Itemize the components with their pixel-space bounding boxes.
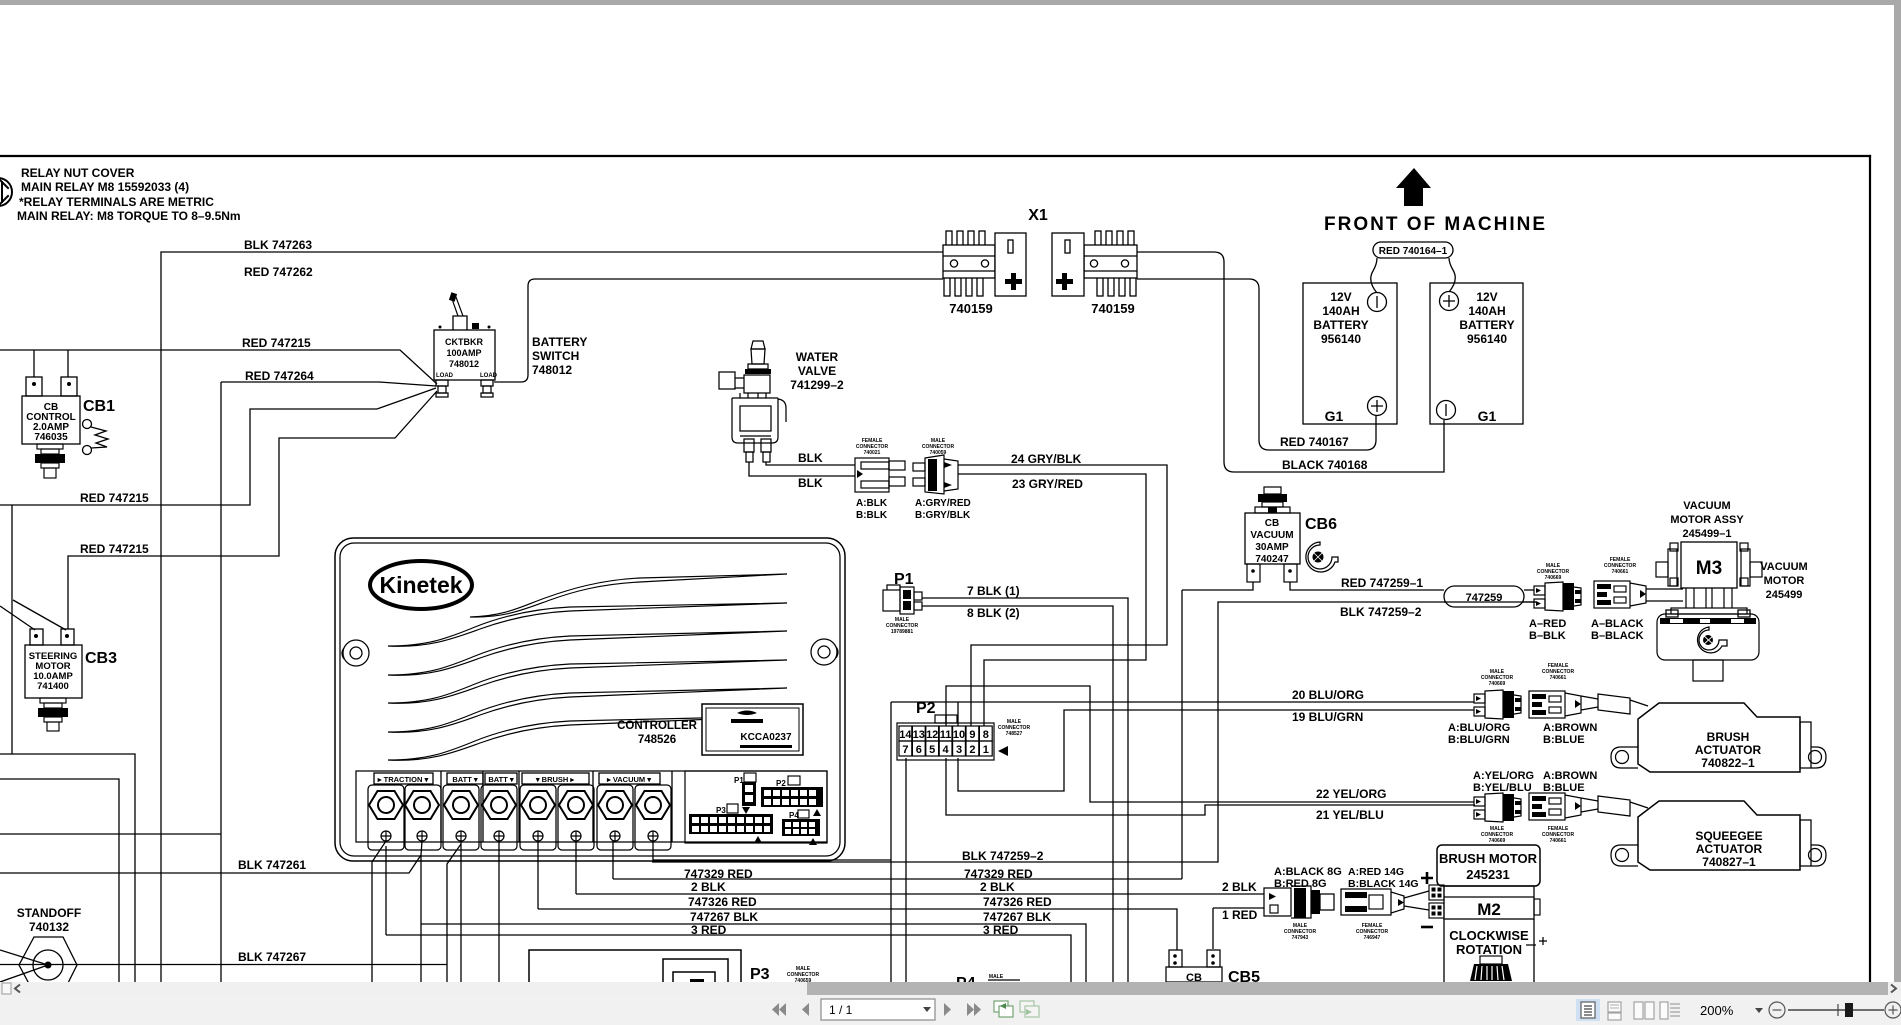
svg-text:CB1: CB1 — [83, 398, 115, 415]
svg-text:748012: 748012 — [449, 359, 479, 369]
svg-text:A–RED: A–RED — [1529, 618, 1566, 630]
svg-text:1: 1 — [983, 744, 989, 756]
page box — [821, 999, 935, 1020]
rib wave 6 — [388, 716, 787, 760]
svg-text:BLK 747259–2: BLK 747259–2 — [962, 849, 1044, 863]
svg-text:1 / 1: 1 / 1 — [829, 1003, 853, 1017]
terminal strip — [356, 771, 827, 842]
wire RED 747259-1 — [1182, 582, 1534, 879]
svg-text:140AH: 140AH — [1468, 304, 1505, 318]
wire 20 BLU/ORG — [891, 701, 1474, 703]
svg-text:22 YEL/ORG: 22 YEL/ORG — [1316, 787, 1386, 801]
wires P2 region — [891, 686, 1475, 937]
rib wave 5 — [388, 688, 787, 732]
svg-text:747943: 747943 — [1292, 935, 1309, 941]
svg-text:7 BLK (1): 7 BLK (1) — [967, 584, 1020, 598]
svg-text:A:BLU/ORG: A:BLU/ORG — [1448, 722, 1510, 734]
svg-text:12: 12 — [926, 729, 938, 741]
svg-text:MOTOR ASSY: MOTOR ASSY — [1670, 514, 1744, 526]
svg-text:RED 747215: RED 747215 — [242, 336, 311, 350]
svg-text:740021: 740021 — [864, 450, 881, 456]
svg-text:M2: M2 — [1477, 900, 1501, 919]
svg-text:CKTBKR: CKTBKR — [445, 337, 483, 347]
svg-text:ACTUATOR: ACTUATOR — [1695, 743, 1762, 757]
battery G1 number 1 — [1303, 283, 1397, 424]
svg-text:B:BLU/GRN: B:BLU/GRN — [1448, 734, 1510, 746]
standoff 740132 — [17, 906, 81, 993]
terminal studs — [368, 785, 671, 850]
svg-text:VALVE: VALVE — [798, 364, 836, 378]
circuit breaker CB1 — [22, 377, 115, 478]
rib wave 2 — [388, 603, 787, 646]
wire BLK 747263 — [161, 252, 943, 982]
svg-text:▸ VACUUM ▾: ▸ VACUUM ▾ — [606, 775, 652, 784]
svg-text:P3: P3 — [750, 966, 770, 983]
CB6 terminals — [1247, 564, 1297, 582]
svg-text:Kinetek: Kinetek — [379, 572, 462, 598]
svg-text:741299–2: 741299–2 — [790, 378, 844, 392]
male connector 740059 — [913, 438, 971, 521]
svg-text:VACUUM: VACUUM — [1760, 561, 1807, 573]
svg-text:740661: 740661 — [1550, 675, 1567, 681]
svg-text:B:YEL/BLU: B:YEL/BLU — [1473, 782, 1532, 794]
svg-text:P2: P2 — [776, 779, 786, 788]
svg-text:SQUEEGEE: SQUEEGEE — [1695, 829, 1762, 843]
svg-text:VACUUM: VACUUM — [1683, 500, 1730, 512]
controller U1 Kinetek 748526 — [335, 538, 845, 861]
svg-text:19789881: 19789881 — [891, 629, 913, 635]
svg-text:740159: 740159 — [1091, 301, 1134, 316]
svg-text:748527: 748527 — [1006, 731, 1023, 737]
page layout buttons — [1576, 999, 1600, 1021]
svg-text:245499: 245499 — [1766, 589, 1803, 601]
CB1 coil — [83, 420, 109, 455]
battery jumper RED 740164-1 — [1371, 242, 1456, 293]
wires to M2 terminals — [1404, 891, 1429, 910]
svg-text:MOTOR: MOTOR — [1764, 575, 1805, 587]
chrome: right scrollbar strip — [1894, 5, 1901, 982]
relay symbol partial at left edge — [0, 178, 12, 206]
female connector 740661 (brush act) — [1529, 663, 1597, 746]
svg-text:21 YEL/BLU: 21 YEL/BLU — [1316, 808, 1384, 822]
stud drop wires — [372, 841, 653, 982]
svg-text:30AMP: 30AMP — [1255, 542, 1289, 553]
svg-text:748526: 748526 — [638, 734, 676, 746]
female connector 740661 (squeegee act) — [1529, 770, 1597, 844]
svg-text:740669: 740669 — [1489, 681, 1506, 687]
wire CB3 diagonals — [0, 600, 66, 630]
wire stud5 drop — [537, 841, 539, 909]
svg-text:BATT ▾: BATT ▾ — [488, 775, 515, 784]
svg-text:740827–1: 740827–1 — [1702, 855, 1756, 869]
chrome: horizontal scrollbar — [0, 982, 1901, 995]
svg-text:747267 BLK: 747267 BLK — [983, 910, 1051, 924]
wire 2 BLK row — [576, 893, 1264, 895]
svg-text:*RELAY TERMINALS ARE METRIC: *RELAY TERMINALS ARE METRIC — [19, 195, 214, 209]
svg-text:740669: 740669 — [1545, 575, 1562, 581]
svg-text:1 RED: 1 RED — [1222, 908, 1258, 922]
controller internal connector bay — [685, 771, 827, 845]
connector P3 partial bottom — [529, 950, 819, 984]
svg-text:A:GRY/RED: A:GRY/RED — [915, 498, 971, 509]
svg-text:956140: 956140 — [1321, 332, 1361, 346]
M3 impeller icon — [1698, 627, 1727, 653]
svg-text:7: 7 — [902, 744, 908, 756]
connector P2 external — [897, 700, 1030, 760]
wire stud6 drop — [575, 841, 577, 894]
svg-text:▸ TRACTION ▾: ▸ TRACTION ▾ — [377, 775, 430, 784]
svg-text:RED 747259–1: RED 747259–1 — [1341, 576, 1423, 590]
svg-text:A:BROWN: A:BROWN — [1543, 722, 1597, 734]
svg-text:CB3: CB3 — [85, 650, 117, 667]
CB6 impeller icon — [1306, 542, 1338, 572]
svg-text:CONTROLLER: CONTROLLER — [617, 720, 698, 732]
svg-text:CLOCKWISE: CLOCKWISE — [1449, 928, 1529, 943]
svg-text:BLK 747263: BLK 747263 — [244, 238, 312, 252]
svg-text:20 BLU/ORG: 20 BLU/ORG — [1292, 688, 1364, 702]
frame top border — [0, 155, 1870, 157]
svg-text:740247: 740247 — [1255, 554, 1289, 565]
controller label KCCA0237 — [702, 704, 803, 755]
screw boss left — [342, 640, 369, 666]
svg-text:RELAY NUT COVER: RELAY NUT COVER — [21, 166, 135, 180]
wire CB1 terminal drops — [34, 350, 68, 377]
svg-text:100AMP: 100AMP — [446, 348, 481, 358]
wire RED 747215 top — [0, 350, 437, 384]
svg-text:9: 9 — [969, 729, 975, 741]
wire stud1 drop — [372, 841, 386, 982]
labels left wires — [80, 238, 314, 964]
wire BLK 747261 — [0, 855, 421, 873]
wire stud8 drop — [652, 841, 654, 862]
connector X1 pair — [943, 207, 1137, 316]
svg-text:A:BLK: A:BLK — [856, 498, 888, 509]
svg-text:RED 747262: RED 747262 — [244, 265, 313, 279]
wire stud7 drop — [612, 841, 614, 879]
svg-text:23 GRY/RED: 23 GRY/RED — [1012, 477, 1083, 491]
battery G1 number 2 — [1430, 283, 1523, 424]
svg-text:13: 13 — [913, 729, 925, 741]
svg-text:10: 10 — [953, 729, 965, 741]
svg-text:12V: 12V — [1476, 290, 1497, 304]
female connector 740661 (vacuum) — [1591, 557, 1646, 642]
svg-text:3 RED: 3 RED — [691, 923, 727, 937]
circuit breaker CB3 steering — [25, 629, 117, 731]
female connector 746947 — [1341, 889, 1404, 915]
svg-text:6: 6 — [916, 744, 922, 756]
chrome: window top strip — [0, 0, 1901, 5]
svg-text:11: 11 — [940, 729, 952, 741]
svg-text:VACUUM: VACUUM — [1250, 530, 1293, 541]
brush actuator left ear — [1611, 747, 1638, 768]
svg-text:BRUSH: BRUSH — [1707, 730, 1750, 744]
svg-text:BLK 747259–2: BLK 747259–2 — [1340, 605, 1422, 619]
switch terminals — [436, 380, 493, 397]
wire 22 YEL/ORG from pin11 — [946, 686, 1474, 802]
svg-text:245499–1: 245499–1 — [1683, 528, 1732, 540]
svg-text:12V: 12V — [1330, 290, 1351, 304]
wire RED 747264 — [221, 382, 436, 386]
wire water valve BLK A — [749, 462, 855, 476]
wire 21 YEL/BLU from pin4 — [946, 758, 1475, 815]
svg-text:B:BLUE: B:BLUE — [1543, 734, 1585, 746]
M3 side bracket left — [1656, 543, 1678, 586]
wire water valve BLK B — [749, 462, 855, 476]
svg-text:A:YEL/ORG: A:YEL/ORG — [1473, 770, 1534, 782]
svg-text:LOAD: LOAD — [436, 373, 454, 379]
svg-text:19 BLU/GRN: 19 BLU/GRN — [1292, 710, 1363, 724]
svg-text:STANDOFF: STANDOFF — [17, 906, 81, 920]
wire X1 right RED to battery RED 740167 — [1137, 279, 1376, 450]
wire 3 RED row — [386, 935, 1071, 982]
wire big loop box — [0, 505, 12, 754]
svg-text:740132: 740132 — [29, 920, 69, 934]
svg-text:B:BLACK 14G: B:BLACK 14G — [1348, 878, 1419, 890]
svg-text:14: 14 — [899, 729, 912, 741]
wire BLK 747259-2 row — [652, 602, 1536, 862]
svg-text:A:RED 14G: A:RED 14G — [1348, 866, 1404, 878]
svg-text:3 RED: 3 RED — [983, 923, 1019, 937]
svg-text:747267 BLK: 747267 BLK — [690, 910, 758, 924]
wire 8 BLK (2) — [922, 606, 1113, 982]
male connector 740669 (brush act) — [1448, 669, 1521, 746]
wire RED 747262 — [494, 279, 943, 382]
svg-text:MAIN RELAY: M8 TORQUE TO 8–9.5: MAIN RELAY: M8 TORQUE TO 8–9.5Nm — [17, 209, 241, 223]
svg-text:24 GRY/BLK: 24 GRY/BLK — [1011, 452, 1082, 466]
svg-text:KCCA0237: KCCA0237 — [740, 732, 792, 743]
svg-text:MALE: MALE — [989, 974, 1004, 980]
chrome: bottom toolbar — [0, 995, 1901, 1025]
svg-text:B:BLK: B:BLK — [856, 510, 888, 521]
connector P4 partial bottom — [956, 974, 1020, 992]
wire pin7 drop — [905, 758, 907, 937]
svg-text:M3: M3 — [1696, 558, 1722, 579]
svg-text:747326 RED: 747326 RED — [688, 895, 757, 909]
rib wave 3 — [388, 631, 787, 675]
first page button — [772, 1003, 786, 1016]
svg-text:4: 4 — [943, 744, 950, 756]
CB1 bottom connector stack — [35, 444, 65, 478]
svg-text:245231: 245231 — [1466, 867, 1509, 882]
male connector 747943 — [1264, 886, 1334, 918]
svg-text:5: 5 — [929, 744, 935, 756]
wire 1 RED to CB5 — [1212, 908, 1214, 949]
front of machine arrow — [1324, 168, 1547, 235]
svg-text:BLK: BLK — [798, 451, 823, 465]
svg-text:746947: 746947 — [1364, 935, 1381, 941]
squeegee actuator right ear — [1811, 845, 1826, 866]
svg-text:2: 2 — [969, 744, 975, 756]
svg-text:RED 740167: RED 740167 — [1280, 435, 1349, 449]
svg-text:3: 3 — [956, 744, 962, 756]
X1 left connector 740159 — [943, 231, 1026, 296]
M3 drum band — [1660, 618, 1756, 624]
svg-text:BATTERY: BATTERY — [532, 335, 587, 349]
svg-text:LOAD: LOAD — [480, 373, 498, 379]
circuit breaker CB5 — [1166, 950, 1260, 986]
svg-text:WATER: WATER — [796, 350, 839, 364]
svg-text:740669: 740669 — [1489, 838, 1506, 844]
svg-text:140AH: 140AH — [1322, 304, 1359, 318]
svg-text:RED 747264: RED 747264 — [245, 369, 314, 383]
svg-text:ACTUATOR: ACTUATOR — [1696, 842, 1763, 856]
svg-text:BLK 747261: BLK 747261 — [238, 858, 306, 872]
wire row937 left bridge — [905, 937, 907, 982]
svg-text:956140: 956140 — [1467, 332, 1507, 346]
screw boss right — [811, 639, 838, 665]
svg-text:BATTERY: BATTERY — [1459, 318, 1514, 332]
svg-text:BLK 747267: BLK 747267 — [238, 950, 306, 964]
brush actuator 740822-1 — [1581, 694, 1826, 772]
svg-text:RED 740164–1: RED 740164–1 — [1379, 246, 1448, 257]
svg-text:CB: CB — [1265, 518, 1279, 529]
svg-text:MAIN RELAY M8 15592033 (4): MAIN RELAY M8 15592033 (4) — [21, 180, 189, 194]
svg-text:740159: 740159 — [949, 301, 992, 316]
svg-text:BLK: BLK — [798, 476, 823, 490]
connector P1 external — [883, 571, 922, 635]
svg-text:RED 747215: RED 747215 — [80, 542, 149, 556]
svg-text:741400: 741400 — [37, 681, 69, 692]
svg-text:8 BLK (2): 8 BLK (2) — [967, 606, 1020, 620]
svg-text:SWITCH: SWITCH — [532, 349, 579, 363]
svg-text:BATTERY: BATTERY — [1313, 318, 1368, 332]
water valve 741299-2 — [719, 341, 844, 462]
wire stud2 drop — [421, 841, 422, 982]
svg-text:G1: G1 — [1478, 408, 1497, 424]
svg-text:RED 747215: RED 747215 — [80, 491, 149, 505]
inline label oval 747259 — [1444, 586, 1536, 607]
svg-text:747329 RED: 747329 RED — [684, 867, 753, 881]
vacuum motor assy M3 — [1656, 500, 1808, 681]
female connector 740021 — [855, 438, 905, 521]
divider lines — [441, 771, 672, 842]
wire 747267 BLK row — [421, 924, 1086, 982]
svg-text:740661: 740661 — [1550, 838, 1567, 844]
M2 terminal blocks — [1429, 885, 1444, 918]
row labels — [684, 849, 1258, 937]
M3 base slats — [1657, 588, 1759, 681]
svg-text:B–BLK: B–BLK — [1529, 630, 1566, 642]
wire 23 GRY/RED — [958, 474, 1146, 726]
wire connector to M3 — [1646, 589, 1683, 601]
prev/next view icons — [994, 1001, 1013, 1017]
svg-text:▾ BRUSH ▸: ▾ BRUSH ▸ — [535, 775, 576, 784]
wire BLK 747267 — [0, 964, 447, 966]
svg-text:200%: 200% — [1700, 1003, 1734, 1018]
notes text block — [17, 166, 241, 223]
circuit breaker CB6 vacuum — [1245, 487, 1338, 582]
wire RED 747215 second — [0, 388, 436, 505]
wire stud8 to net row — [653, 859, 891, 861]
svg-text:A–BLACK: A–BLACK — [1591, 618, 1644, 630]
svg-text:2 BLK: 2 BLK — [980, 880, 1015, 894]
kinetek logo ellipse — [370, 561, 472, 609]
svg-text:A:BLACK 8G: A:BLACK 8G — [1274, 866, 1342, 878]
svg-text:740661: 740661 — [1612, 569, 1629, 575]
svg-text:2 BLK: 2 BLK — [691, 880, 726, 894]
wire stud3 drop — [460, 841, 462, 982]
wire left stub y779 — [0, 779, 119, 982]
squeegee actuator 740827-1 — [1581, 796, 1826, 870]
svg-text:CB6: CB6 — [1305, 516, 1337, 533]
svg-text:2 BLK: 2 BLK — [1222, 880, 1257, 894]
svg-text:ROTATION: ROTATION — [1456, 942, 1522, 957]
brush motor 245231 box — [1437, 845, 1540, 886]
svg-text:P3: P3 — [716, 806, 726, 815]
male connector 740669 (squeegee act) — [1473, 770, 1534, 844]
svg-text:B:GRY/BLK: B:GRY/BLK — [915, 510, 971, 521]
section labels — [374, 773, 660, 784]
wire RED 747215 third — [68, 391, 437, 629]
svg-text:FRONT OF MACHINE: FRONT OF MACHINE — [1324, 214, 1547, 235]
wire 24 GRY/BLK — [958, 465, 1167, 726]
wire stud4 drop — [498, 841, 500, 982]
frame right border — [1869, 156, 1871, 982]
wire rows bottom — [386, 602, 1536, 982]
wire standoff diagonals — [0, 950, 48, 982]
svg-text:X1: X1 — [1028, 207, 1048, 224]
svg-text:G1: G1 — [1325, 408, 1344, 424]
wire 19 BLU/GRN from pin3 — [958, 710, 1474, 791]
male connector 740669 (vacuum) — [1529, 563, 1581, 642]
wire 7 BLK (1) — [922, 598, 1128, 982]
motor M2 body — [1444, 886, 1534, 919]
svg-text:740822–1: 740822–1 — [1701, 756, 1755, 770]
svg-text:8: 8 — [983, 729, 989, 741]
stud hex nuts — [369, 791, 670, 819]
M2 brush symbol — [1480, 956, 1502, 964]
squeegee actuator left ear — [1611, 845, 1638, 866]
svg-text:748012: 748012 — [532, 363, 572, 377]
svg-text:BLACK 740168: BLACK 740168 — [1282, 458, 1368, 472]
svg-text:747329 RED: 747329 RED — [964, 867, 1033, 881]
wire 747326 RED 1 RED row — [538, 909, 1177, 950]
M3 side bracket right — [1740, 543, 1762, 586]
wire 747329 RED row — [613, 878, 1182, 880]
X1 right connector 740159 — [1052, 231, 1137, 296]
rib wave 4 — [388, 660, 787, 703]
brush motor group — [1264, 845, 1547, 982]
svg-text:BATT ▾: BATT ▾ — [452, 775, 479, 784]
brush actuator right ear — [1811, 747, 1826, 768]
svg-text:BRUSH MOTOR: BRUSH MOTOR — [1439, 851, 1538, 866]
svg-text:B–BLACK: B–BLACK — [1591, 630, 1644, 642]
svg-text:B:BLUE: B:BLUE — [1543, 782, 1585, 794]
battery switch CKTBKR 748012 — [434, 292, 587, 397]
wire X1 right to battery BLACK 740168 — [1137, 252, 1444, 472]
wire left y834 — [0, 833, 221, 835]
rib wave 1 — [470, 574, 787, 617]
svg-text:747326 RED: 747326 RED — [983, 895, 1052, 909]
svg-text:A:BROWN: A:BROWN — [1543, 770, 1597, 782]
svg-text:746035: 746035 — [34, 432, 68, 443]
